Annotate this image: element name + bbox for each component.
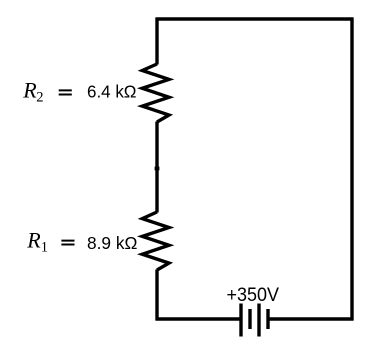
wire bottom right (battery to right rail): [268, 317, 354, 320]
wire top rail: [156, 17, 354, 20]
svg-text:+350V: +350V: [227, 285, 280, 306]
wire left upper (top rail to R2): [155, 18, 158, 65]
label R1 reference designator: [26, 228, 74, 256]
battery V1 long plate (left outer, positive): [239, 304, 242, 337]
resistor R2: [142, 64, 169, 122]
svg-text:R: R: [26, 228, 41, 253]
label R2 reference designator: [22, 78, 72, 106]
resistor R1: [142, 212, 169, 270]
svg-text:2: 2: [36, 90, 43, 106]
wire right side: [350, 18, 353, 321]
battery V1 long plate (inner right): [257, 304, 260, 337]
node A (junction of R2/R1 leads on left branch): [155, 167, 160, 171]
wire left lower (R1 to bottom rail): [155, 270, 158, 321]
wire middle (node between R2 and R1): [155, 122, 158, 213]
battery V1 short plate (right outer, negative): [266, 309, 269, 329]
svg-text:8.9 kΩ: 8.9 kΩ: [87, 233, 137, 253]
svg-text:R: R: [22, 78, 37, 103]
wire bottom left (to battery positive plate): [156, 317, 242, 320]
svg-text:6.4 kΩ: 6.4 kΩ: [87, 82, 137, 102]
svg-text:1: 1: [41, 240, 48, 256]
battery V1 short plate (inner left): [248, 309, 251, 329]
